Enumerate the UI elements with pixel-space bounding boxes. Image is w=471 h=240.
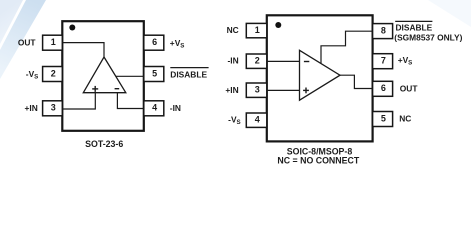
label +Vs (pin 7) [398, 55, 413, 67]
svg-text:NC: NC [399, 114, 411, 124]
svg-text:(SGM8537 ONLY): (SGM8537 ONLY) [394, 32, 462, 42]
op-amp A2 - input marker [304, 61, 309, 63]
pin number 6 [381, 83, 386, 93]
pin number 1 [51, 37, 56, 47]
label +IN (pin 3) [25, 103, 38, 113]
pin 2 box [246, 54, 266, 68]
svg-text:DISABLE: DISABLE [396, 23, 433, 33]
svg-text:DISABLE: DISABLE [170, 70, 207, 80]
op-amp A2 + input marker [303, 88, 309, 94]
svg-text:3: 3 [255, 85, 260, 95]
label -Vs (pin 4) [228, 114, 241, 126]
wire op-amp - input to pin4 -IN [117, 93, 143, 109]
pin 1 box [43, 35, 63, 50]
wire op-amp right slant to pin5 DISABLE [116, 75, 144, 77]
svg-text:1: 1 [51, 37, 56, 47]
caption NC = NO CONNECT [277, 155, 359, 165]
pin 3 box [246, 83, 266, 97]
svg-text:6: 6 [152, 37, 157, 47]
svg-text:NC: NC [227, 25, 239, 35]
IC package body U2 (SOIC-8/MSOP-8) [267, 15, 373, 141]
svg-text:2: 2 [255, 56, 260, 66]
label OUT (pin 6) [400, 84, 419, 94]
label NC (pin 1) [227, 25, 239, 35]
svg-text:7: 7 [381, 56, 386, 66]
pin 7 box [373, 54, 393, 69]
decorative corner wedge (background art, top-left) [0, 0, 23, 44]
op-amp A1 - input marker [115, 88, 120, 90]
pin 4 box [144, 101, 164, 116]
svg-text:5: 5 [381, 113, 386, 123]
pin 1 box [246, 23, 266, 37]
label OUT (pin 1) [18, 38, 37, 48]
pin number 6 [152, 37, 157, 47]
pin number 4 [255, 115, 260, 125]
svg-text:-IN: -IN [170, 103, 181, 113]
pin 6 box [144, 35, 164, 50]
pin 1 indicator dot [69, 25, 75, 31]
wire pin3 +IN to op-amp + input [62, 93, 95, 109]
IC package body U1 (SOT-23-6) [62, 21, 144, 131]
pin 5 box [144, 67, 164, 82]
wire pin3 +IN to op-amp + input [267, 89, 300, 91]
pin 3 box [43, 101, 63, 116]
wire pin2 -IN to op-amp - input [267, 60, 300, 62]
svg-text:-IN: -IN [228, 56, 239, 66]
pin number 3 [51, 103, 56, 113]
op-amp A2 (triangle) [300, 50, 341, 100]
label DISABLE (pin 8) [395, 21, 432, 32]
svg-text:8: 8 [381, 26, 386, 36]
svg-text:6: 6 [381, 83, 386, 93]
pin 2 box [43, 67, 63, 82]
caption SOT-23-6 [85, 139, 123, 149]
pin 6 box [373, 81, 393, 96]
svg-text:OUT: OUT [400, 84, 419, 94]
svg-text:+IN: +IN [225, 85, 238, 95]
op-amp A1 + input marker [92, 86, 98, 92]
pin number 3 [255, 85, 260, 95]
pin number 1 [255, 25, 260, 35]
label (SGM8537 ONLY) (pin 8 note) [394, 32, 462, 42]
label DISABLE (pin 5) [170, 68, 208, 80]
pin 1 indicator dot [275, 22, 281, 28]
svg-text:3: 3 [51, 103, 56, 113]
pin number 7 [381, 56, 386, 66]
label NC (pin 5) [399, 114, 411, 124]
label +IN (pin 3) [225, 85, 238, 95]
pin 8 box [373, 24, 393, 39]
caption SOIC-8/MSOP-8 [287, 147, 353, 157]
wire op-amp output (apex) to pin6 OUT [340, 75, 373, 88]
label -IN (pin 2) [228, 56, 239, 66]
op-amp A1 (triangle) [83, 57, 126, 93]
pin number 5 [381, 113, 386, 123]
pin number 8 [381, 26, 386, 36]
wire op-amp top slant to pin8 DISABLE (staircase) [321, 31, 373, 63]
svg-text:2: 2 [51, 68, 56, 78]
svg-text:1: 1 [255, 25, 260, 35]
pin 5 box [373, 112, 393, 127]
svg-text:5: 5 [152, 68, 157, 78]
svg-text:+IN: +IN [25, 103, 38, 113]
svg-text:OUT: OUT [18, 38, 37, 48]
svg-text:4: 4 [152, 103, 157, 113]
label +Vs (pin 6) [170, 38, 185, 50]
pin number 5 [152, 68, 157, 78]
pin number 2 [51, 68, 56, 78]
pin number 4 [152, 103, 157, 113]
decorative corner wash (background art, top-right) [428, 0, 471, 27]
svg-text:4: 4 [255, 115, 260, 125]
svg-text:SOT-23-6: SOT-23-6 [85, 139, 123, 149]
wire pin1 OUT to op-amp output (apex) [62, 43, 104, 57]
pin number 2 [255, 56, 260, 66]
svg-text:NC = NO CONNECT: NC = NO CONNECT [277, 155, 359, 165]
pin 4 box [246, 113, 266, 127]
label -Vs (pin 2) [26, 69, 39, 81]
label -IN (pin 4) [170, 103, 181, 113]
